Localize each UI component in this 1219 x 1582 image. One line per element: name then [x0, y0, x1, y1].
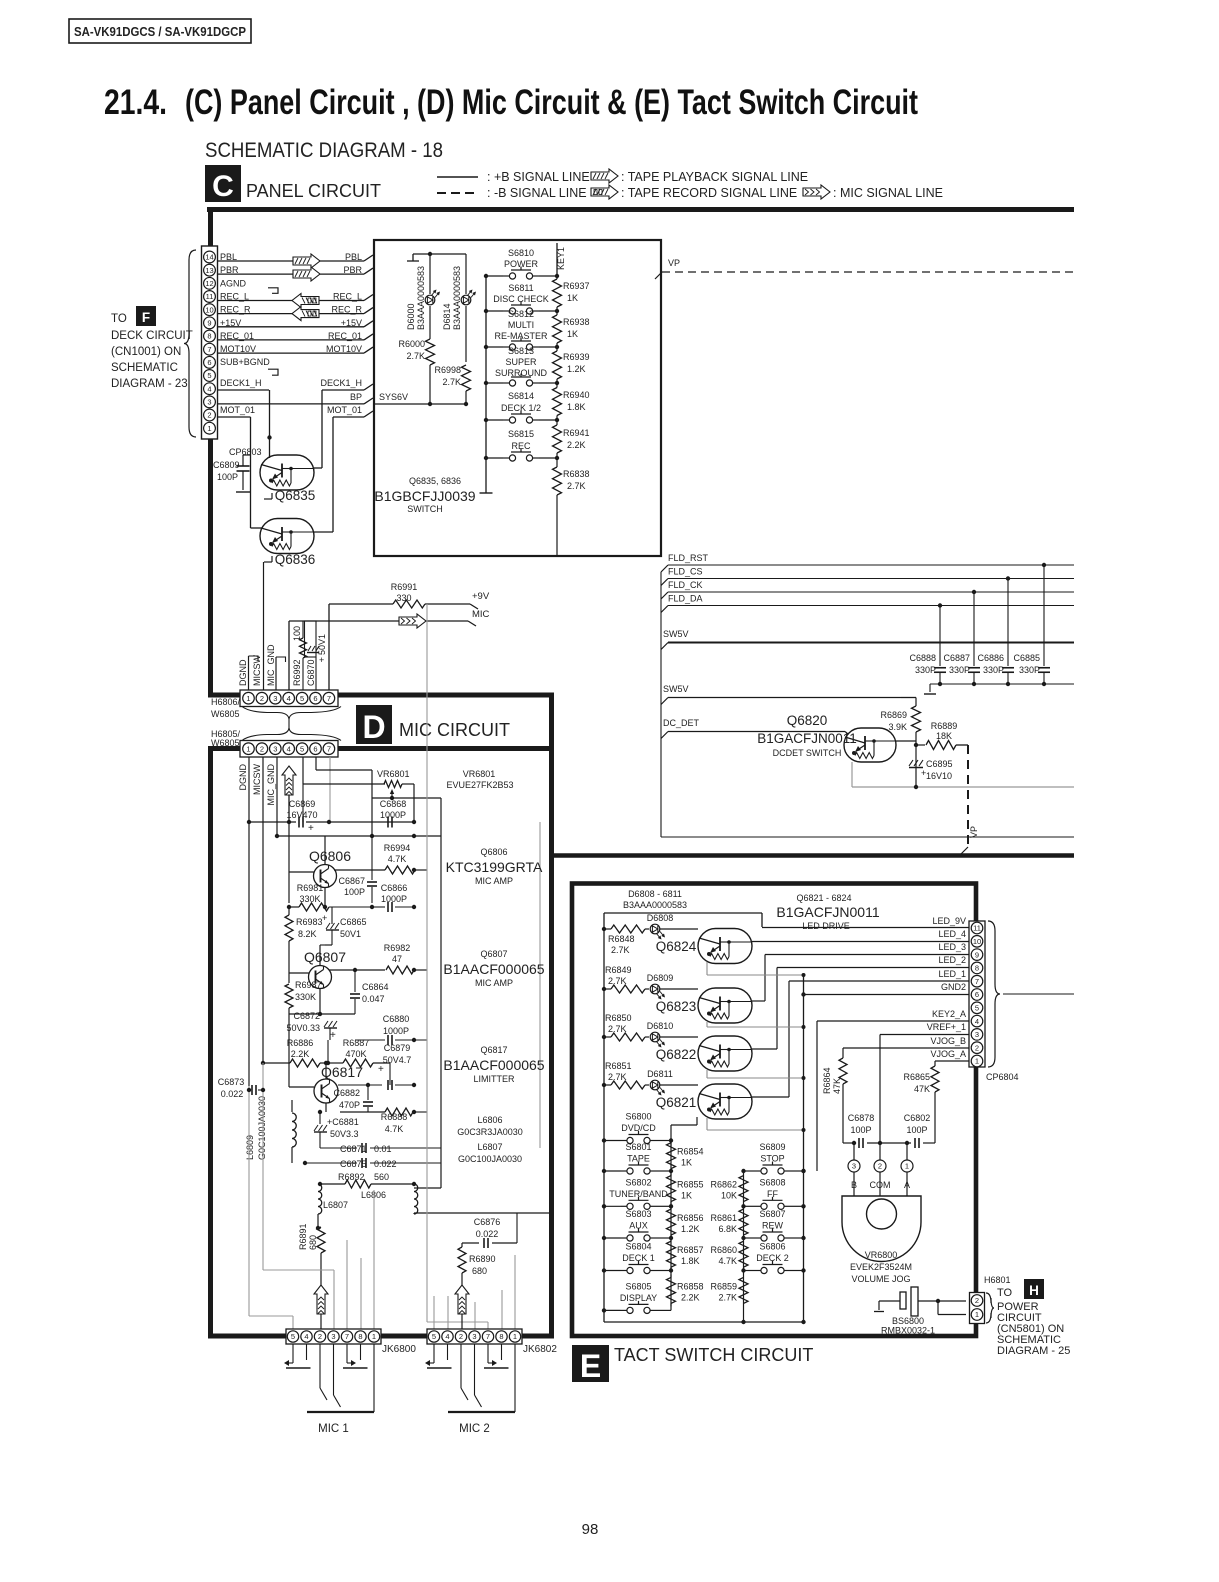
svg-text:MIC 1: MIC 1 [318, 1423, 349, 1435]
svg-text:Q6806: Q6806 [480, 847, 507, 857]
svg-text:1: 1 [246, 694, 250, 703]
wire S6804 row [604, 1270, 621, 1272]
wire S6802 row [604, 1205, 621, 1207]
wire MIC vertical [288, 621, 290, 690]
svg-text:3: 3 [852, 1162, 856, 1171]
svg-text:LED_3: LED_3 [938, 942, 966, 952]
svg-text:10K: 10K [721, 1191, 737, 1201]
wire REC_R [218, 313, 365, 315]
svg-text:C6866: C6866 [381, 883, 408, 893]
svg-text:7: 7 [486, 1332, 490, 1341]
svg-text:1.8K: 1.8K [681, 1256, 700, 1266]
svg-text:3: 3 [273, 694, 277, 703]
svg-text:1.2K: 1.2K [567, 364, 586, 374]
wire +9V vertical [328, 604, 330, 690]
svg-text:DCDET SWITCH: DCDET SWITCH [773, 748, 842, 758]
transistor Q6836 [260, 519, 314, 554]
section D label [356, 705, 392, 744]
svg-text:1: 1 [372, 1332, 376, 1341]
svg-text:330P: 330P [1019, 665, 1040, 675]
svg-text:7: 7 [327, 744, 331, 753]
svg-text:VR6800: VR6800 [865, 1250, 898, 1260]
svg-text:REC_01: REC_01 [220, 331, 254, 341]
svg-text:2.7K: 2.7K [406, 351, 425, 361]
svg-text:2: 2 [459, 1332, 463, 1341]
svg-text:C6879: C6879 [384, 1043, 411, 1053]
svg-text:LED DRIVE: LED DRIVE [802, 921, 850, 931]
svg-text:10: 10 [205, 305, 213, 314]
svg-text:R6940: R6940 [563, 390, 590, 400]
svg-text:G0C100JA0030: G0C100JA0030 [458, 1154, 522, 1164]
svg-text:9: 9 [975, 950, 979, 959]
svg-text:8: 8 [499, 1332, 503, 1341]
LED top bracket wire [413, 253, 466, 255]
svg-text:3: 3 [975, 1030, 979, 1039]
svg-text:MOT_01: MOT_01 [327, 405, 362, 415]
svg-text:Q6817: Q6817 [480, 1045, 507, 1055]
svg-text:0.047: 0.047 [362, 994, 385, 1004]
svg-text:Q6835: Q6835 [275, 488, 316, 503]
svg-text:MIC_GND: MIC_GND [266, 644, 276, 686]
svg-text:3.9K: 3.9K [888, 722, 907, 732]
svg-text:SW5V: SW5V [663, 684, 689, 694]
LED drive row Q6824 [602, 927, 606, 931]
svg-text:2: 2 [318, 1332, 322, 1341]
svg-text:VR6801: VR6801 [463, 769, 496, 779]
svg-text:REC_R: REC_R [331, 305, 362, 315]
svg-text:R6987: R6987 [295, 980, 322, 990]
svg-text:VOLUME JOG: VOLUME JOG [851, 1274, 910, 1284]
svg-text:1: 1 [246, 744, 250, 753]
svg-text:L6806: L6806 [477, 1115, 502, 1125]
svg-text:MOT10V: MOT10V [326, 344, 362, 354]
svg-text:330K: 330K [295, 992, 316, 1002]
wire BP / SYS6V row [218, 403, 365, 405]
svg-text:1: 1 [513, 1332, 517, 1341]
S6800 top feed [670, 1125, 672, 1141]
svg-text:DECK1_H: DECK1_H [320, 378, 362, 388]
svg-text:MICSW: MICSW [252, 764, 262, 796]
svg-text:+: + [322, 913, 327, 923]
svg-text:8: 8 [975, 964, 979, 973]
svg-text:B3AAA0000583: B3AAA0000583 [623, 900, 687, 910]
svg-text:2.7K: 2.7K [567, 481, 586, 491]
wire DC_DET drop rail [660, 572, 662, 837]
svg-text:3: 3 [273, 744, 277, 753]
matrix right bus [803, 1131, 805, 1322]
matrix bottom wire [604, 1321, 804, 1323]
svg-text:+: + [330, 1030, 336, 1041]
svg-text:100P: 100P [344, 887, 365, 897]
svg-text:C6870: C6870 [306, 659, 316, 686]
svg-text:BS6800: BS6800 [892, 1316, 924, 1326]
tape playback arrow PBL [293, 254, 320, 268]
svg-text:R6000: R6000 [398, 339, 425, 349]
svg-text:JK6800: JK6800 [382, 1344, 416, 1355]
svg-text:50V4.7: 50V4.7 [383, 1055, 412, 1065]
wire DECK1_H row [218, 389, 270, 391]
svg-text:5: 5 [300, 744, 304, 753]
cable brace H6806-H6805 [242, 707, 341, 720]
mic arrow into D [282, 766, 296, 795]
svg-text:R6887: R6887 [343, 1038, 370, 1048]
svg-text:Q6807: Q6807 [480, 949, 507, 959]
svg-text:S6802: S6802 [625, 1177, 651, 1187]
svg-text:DECK CIRCUIT: DECK CIRCUIT [111, 330, 193, 342]
svg-text:PANEL CIRCUIT: PANEL CIRCUIT [246, 181, 381, 201]
svg-text:2.2K: 2.2K [291, 1049, 310, 1059]
matrix node col fill [670, 1141, 672, 1311]
svg-text:S6810: S6810 [508, 248, 534, 258]
svg-text:0.01: 0.01 [374, 1144, 392, 1154]
svg-text:REC_L: REC_L [220, 292, 249, 302]
svg-text:2.2K: 2.2K [681, 1292, 700, 1302]
svg-text:11: 11 [206, 292, 214, 301]
svg-text:FLD_CK: FLD_CK [668, 580, 703, 590]
legend +B signal line [437, 176, 478, 178]
svg-text:R6838: R6838 [563, 469, 590, 479]
wire emitters to GND2 bus [706, 962, 708, 975]
svg-text:5: 5 [432, 1332, 436, 1341]
mic2 signal arrow up [461, 1285, 463, 1287]
svg-text:0.022: 0.022 [221, 1089, 244, 1099]
svg-text:2: 2 [207, 411, 211, 420]
svg-text:4.7K: 4.7K [388, 854, 407, 864]
svg-text:4: 4 [207, 384, 211, 393]
svg-text:4: 4 [304, 1332, 308, 1341]
svg-text:C6865: C6865 [340, 917, 367, 927]
svg-text:B1GACFJN0011: B1GACFJN0011 [757, 731, 857, 746]
svg-text:MIC AMP: MIC AMP [475, 978, 513, 988]
svg-text:2: 2 [260, 694, 264, 703]
svg-text:L6807: L6807 [323, 1200, 348, 1210]
svg-text:16V470: 16V470 [286, 810, 317, 820]
svg-text:EVEK2F3524M: EVEK2F3524M [850, 1262, 912, 1272]
svg-text:1000P: 1000P [383, 1026, 409, 1036]
wire +15V [218, 326, 365, 328]
svg-text:R6994: R6994 [384, 843, 411, 853]
svg-text:14: 14 [205, 253, 213, 262]
svg-text:SUB+BGND: SUB+BGND [220, 357, 270, 367]
svg-text:R6890: R6890 [469, 1254, 496, 1264]
wire S6803 row [604, 1237, 621, 1239]
svg-text:2.7K: 2.7K [442, 377, 461, 387]
svg-text:1000P: 1000P [380, 810, 406, 820]
LED drive row Q6821 [602, 1083, 606, 1087]
svg-text:H: H [1029, 1283, 1039, 1298]
section C label [205, 165, 241, 202]
svg-text:FLD_RST: FLD_RST [668, 553, 709, 563]
svg-text:12: 12 [205, 279, 213, 288]
wire PBR [218, 273, 365, 275]
svg-text:MIC AMP: MIC AMP [475, 876, 513, 886]
matrix left bus [603, 1140, 605, 1322]
svg-text:C6878: C6878 [848, 1113, 875, 1123]
svg-text:7: 7 [207, 345, 211, 354]
svg-text:TO: TO [997, 1287, 1013, 1299]
gray bus drops to jacks [426, 757, 428, 1322]
svg-text:C6887: C6887 [943, 653, 970, 663]
wire MOT10V [218, 352, 365, 354]
svg-text:E: E [580, 1348, 601, 1384]
svg-text:S6803: S6803 [625, 1209, 651, 1219]
wire MOT_01 row [218, 416, 251, 418]
connector CP6804 [969, 921, 985, 1067]
svg-text:6: 6 [313, 744, 317, 753]
svg-text:100P: 100P [217, 472, 238, 482]
svg-text:5: 5 [975, 1004, 979, 1013]
legend -B signal line [437, 192, 478, 194]
svg-text:Q6824: Q6824 [656, 939, 697, 954]
svg-text:REC_01: REC_01 [328, 331, 362, 341]
svg-text:R6860: R6860 [710, 1245, 737, 1255]
svg-text:C6876: C6876 [474, 1217, 501, 1227]
svg-text:B1AACF000065: B1AACF000065 [443, 1057, 544, 1073]
svg-text:R6991: R6991 [391, 582, 418, 592]
svg-text:S6813: S6813 [508, 346, 534, 356]
wire PBL [218, 260, 365, 262]
svg-text:1K: 1K [681, 1158, 692, 1168]
LED drive row Q6823 [602, 987, 606, 991]
svg-text:REC_L: REC_L [333, 292, 362, 302]
node row 1014 [289, 1013, 355, 1015]
svg-text:47K: 47K [832, 1078, 842, 1094]
svg-text:S6812: S6812 [508, 309, 534, 319]
svg-text:C6864: C6864 [362, 982, 389, 992]
svg-text:5: 5 [300, 694, 304, 703]
svg-text:JK6802: JK6802 [523, 1344, 557, 1355]
svg-text:: MIC SIGNAL LINE: : MIC SIGNAL LINE [833, 186, 943, 200]
svg-text:C6809: C6809 [213, 460, 240, 470]
svg-text:SYS6V: SYS6V [379, 392, 408, 402]
svg-text:7: 7 [327, 694, 331, 703]
svg-text:2: 2 [878, 1162, 882, 1171]
svg-text:S6801: S6801 [625, 1142, 651, 1152]
transistor Q6835 [260, 455, 314, 490]
svg-text:C6867: C6867 [338, 876, 365, 886]
row 836 [277, 835, 441, 837]
svg-text:KEY2_A: KEY2_A [932, 1009, 966, 1019]
svg-text:4: 4 [287, 694, 291, 703]
svg-text:2.7K: 2.7K [718, 1292, 737, 1302]
wire Q6835 collector to DECK1_H [314, 467, 322, 469]
svg-text:4.7K: 4.7K [385, 1124, 404, 1134]
svg-text:S6811: S6811 [508, 283, 533, 293]
svg-text:47: 47 [392, 954, 402, 964]
svg-text:R6937: R6937 [563, 281, 590, 291]
svg-text:1: 1 [975, 1057, 979, 1066]
svg-text:R6869: R6869 [880, 710, 907, 720]
svg-text:R6865: R6865 [903, 1072, 930, 1082]
svg-text:R6981: R6981 [297, 883, 324, 893]
svg-text:4: 4 [287, 744, 291, 753]
svg-text:REC_R: REC_R [220, 305, 251, 315]
svg-text:1K: 1K [567, 293, 578, 303]
svg-text:LIMITTER: LIMITTER [473, 1074, 515, 1084]
svg-text:W6805: W6805 [211, 709, 240, 719]
key switch bus [485, 276, 487, 490]
svg-text:3: 3 [472, 1332, 476, 1341]
brace H6801 [986, 1293, 994, 1323]
svg-text:SW5V: SW5V [663, 629, 689, 639]
wire Q6835 base [269, 455, 271, 458]
svg-text:+15V: +15V [341, 318, 362, 328]
wire REC_L [218, 300, 365, 302]
svg-text:DGND: DGND [238, 659, 248, 686]
svg-text:C6882: C6882 [333, 1088, 360, 1098]
svg-text:Q6835, 6836: Q6835, 6836 [409, 476, 461, 486]
svg-text:D6000: D6000 [406, 303, 416, 330]
gray drops from H6805 [302, 757, 304, 784]
wire S6807 row [744, 1237, 755, 1239]
svg-text:MIC 2: MIC 2 [459, 1423, 490, 1435]
svg-text:4: 4 [445, 1332, 449, 1341]
tape playback arrow PBR [293, 267, 320, 281]
svg-text:R6983: R6983 [296, 917, 323, 927]
MIC signal arrow [289, 620, 399, 622]
svg-text:R6861: R6861 [710, 1213, 737, 1223]
VR6800 volume jog [848, 1160, 860, 1172]
svg-text:R6889: R6889 [931, 721, 958, 731]
svg-text:MIC: MIC [472, 609, 490, 620]
wire Q6820 node [896, 740, 916, 742]
svg-text:GND2: GND2 [941, 982, 966, 992]
svg-text:D6808: D6808 [647, 913, 674, 923]
svg-text:8: 8 [358, 1332, 362, 1341]
svg-text:680: 680 [308, 1235, 318, 1250]
svg-text:C6873: C6873 [218, 1077, 245, 1087]
svg-text:4: 4 [975, 1017, 979, 1026]
svg-text:R6992: R6992 [292, 659, 302, 686]
svg-text:TO: TO [111, 313, 127, 325]
capacitor C6895 [915, 745, 917, 787]
svg-text:C6888: C6888 [909, 653, 936, 663]
svg-text:1: 1 [905, 1162, 909, 1171]
svg-text:: +B SIGNAL LINE: : +B SIGNAL LINE [487, 170, 590, 184]
svg-text:Q6806: Q6806 [309, 848, 351, 864]
svg-text:330K: 330K [299, 894, 320, 904]
svg-text:Q6807: Q6807 [304, 949, 346, 965]
model number box [69, 19, 251, 43]
svg-text:S6805: S6805 [625, 1281, 651, 1291]
svg-text:11: 11 [973, 924, 981, 933]
wire DECK1_H vertical to Q6835 [269, 390, 271, 455]
svg-text:MOT10V: MOT10V [220, 344, 256, 354]
svg-text:R6941: R6941 [563, 428, 590, 438]
svg-text:LED_4: LED_4 [938, 929, 966, 939]
svg-text:LED_9V: LED_9V [932, 916, 966, 926]
svg-text:R6854: R6854 [677, 1147, 704, 1157]
svg-text:470K: 470K [345, 1049, 366, 1059]
svg-text:2.7K: 2.7K [608, 1072, 627, 1082]
mic1 signal arrow up [314, 1285, 328, 1314]
svg-text:100P: 100P [850, 1125, 871, 1135]
wire L6806 bottom [414, 1212, 549, 1214]
tact switch E box border [572, 884, 976, 1337]
wire MICSW pin2 riser [263, 562, 265, 690]
legend mic signal [803, 185, 830, 199]
svg-text:330P: 330P [949, 665, 970, 675]
mic circuit D box border [208, 746, 554, 751]
svg-text:7: 7 [975, 977, 979, 986]
KEY1 net [556, 243, 558, 276]
svg-text:3: 3 [331, 1332, 335, 1341]
svg-text:Q6823: Q6823 [656, 999, 697, 1014]
svg-text:D6811: D6811 [647, 1069, 673, 1079]
svg-text:98: 98 [582, 1521, 599, 1538]
svg-text:C6802: C6802 [904, 1113, 931, 1123]
svg-text:680: 680 [472, 1266, 487, 1276]
svg-text:PBR: PBR [220, 265, 239, 275]
svg-text:S6809: S6809 [759, 1142, 785, 1152]
svg-text:G0C100JA0030: G0C100JA0030 [257, 1096, 267, 1160]
svg-text:F: F [142, 310, 150, 325]
svg-text:VR6801: VR6801 [377, 769, 410, 779]
svg-text:0.022: 0.022 [374, 1159, 397, 1169]
switch block box [374, 240, 661, 556]
svg-text:B1AACF000065: B1AACF000065 [443, 961, 544, 977]
svg-text:MICSW: MICSW [252, 655, 262, 687]
wire REC_01 [218, 339, 365, 341]
tape record arrow REC_L [292, 294, 319, 308]
svg-text:DIAGRAM - 23: DIAGRAM - 23 [111, 378, 188, 390]
right resistor column wire [743, 1171, 745, 1322]
svg-text:C6895: C6895 [926, 759, 953, 769]
svg-text:TACT SWITCH CIRCUIT: TACT SWITCH CIRCUIT [614, 1345, 813, 1365]
svg-text:47K: 47K [914, 1084, 930, 1094]
svg-text:6: 6 [975, 990, 979, 999]
svg-text:2: 2 [260, 744, 264, 753]
svg-text:1.8K: 1.8K [567, 402, 586, 412]
svg-text:1.2K: 1.2K [681, 1224, 700, 1234]
svg-text:R6864: R6864 [822, 1067, 832, 1094]
svg-text:Q6822: Q6822 [656, 1047, 697, 1062]
svg-text:+9V: +9V [472, 591, 490, 602]
svg-text:+C6881: +C6881 [327, 1117, 359, 1127]
connector JK6802 [427, 1329, 522, 1344]
svg-text:DGND: DGND [238, 764, 248, 791]
svg-text:R6851: R6851 [605, 1061, 632, 1071]
svg-text:R6891: R6891 [298, 1223, 308, 1250]
svg-text:PBL: PBL [345, 252, 362, 262]
svg-text:FLD_CS: FLD_CS [668, 567, 703, 577]
svg-text:7: 7 [345, 1332, 349, 1341]
svg-text:S6807: S6807 [759, 1209, 785, 1219]
svg-text:8.2K: 8.2K [298, 929, 317, 939]
svg-text:C6885: C6885 [1013, 653, 1040, 663]
svg-text:21.4.: 21.4. [104, 83, 167, 122]
svg-text:R6938: R6938 [563, 317, 590, 327]
svg-text:VP: VP [668, 258, 680, 268]
svg-text:6: 6 [207, 358, 211, 367]
svg-text:0.022: 0.022 [476, 1229, 499, 1239]
LED bus [604, 912, 762, 914]
svg-text:50V1: 50V1 [340, 929, 361, 939]
connector H6806 [240, 690, 338, 707]
svg-text:B3AAA0000583: B3AAA0000583 [452, 266, 462, 330]
svg-text:SCHEMATIC DIAGRAM - 18: SCHEMATIC DIAGRAM - 18 [205, 139, 443, 162]
svg-text:4.7K: 4.7K [718, 1256, 737, 1266]
VP dashed drop [967, 745, 969, 847]
wire S6805 row [604, 1309, 621, 1311]
svg-text:6.8K: 6.8K [718, 1224, 737, 1234]
svg-text:VJOG_A: VJOG_A [930, 1049, 966, 1059]
left rails from H6805 [248, 757, 250, 1086]
svg-text:W6805: W6805 [211, 738, 240, 748]
svg-text:1: 1 [207, 424, 211, 433]
svg-text:1: 1 [975, 1310, 979, 1319]
svg-text:C: C [212, 170, 234, 203]
